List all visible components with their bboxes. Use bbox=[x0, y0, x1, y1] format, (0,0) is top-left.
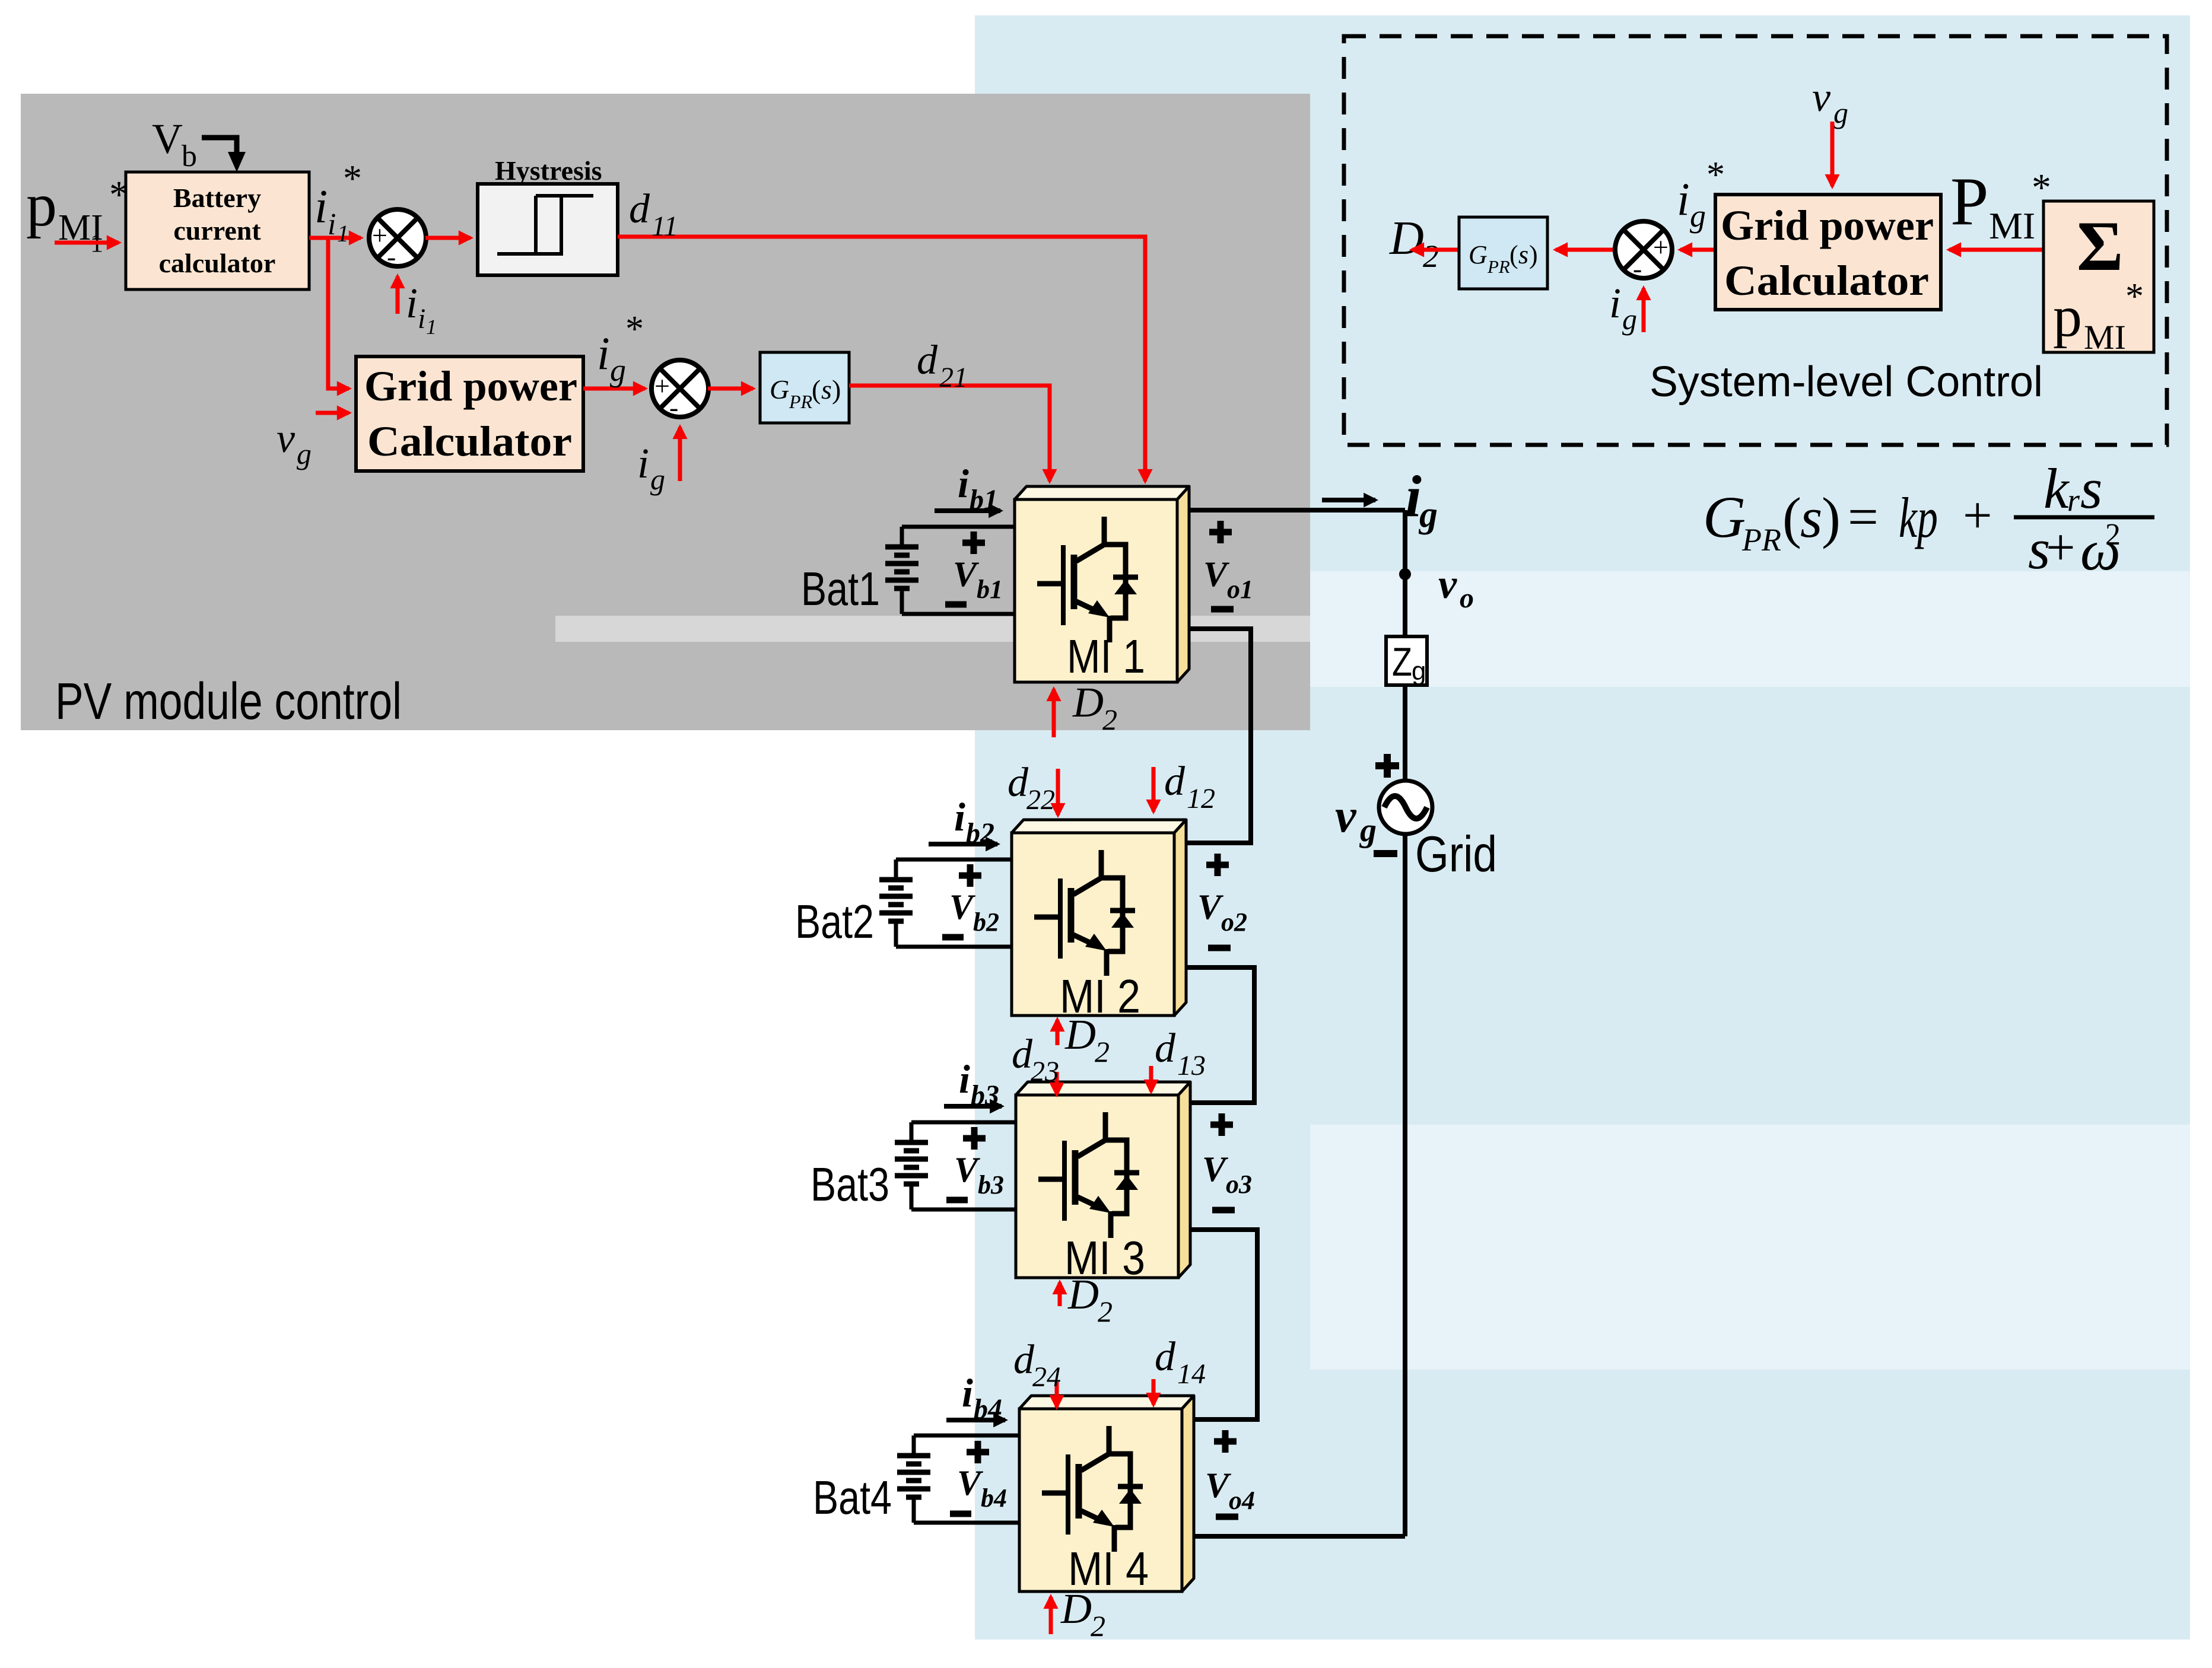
svg-text:i: i bbox=[962, 1370, 973, 1415]
svg-text:Calculator: Calculator bbox=[1724, 257, 1929, 304]
svg-text:-: - bbox=[1633, 253, 1642, 284]
svg-text:b1: b1 bbox=[970, 484, 998, 515]
svg-text:d: d bbox=[1008, 760, 1029, 806]
svg-text:kp: kp bbox=[1899, 486, 1938, 549]
svg-text:MI: MI bbox=[1989, 205, 2035, 247]
svg-text:(: ( bbox=[812, 374, 821, 405]
svg-text:Hystresis: Hystresis bbox=[495, 155, 602, 186]
svg-text:D: D bbox=[1067, 1271, 1099, 1318]
svg-text:v: v bbox=[1335, 790, 1357, 842]
svg-text:d: d bbox=[1013, 1337, 1035, 1383]
svg-text:-: - bbox=[387, 241, 396, 272]
svg-text:+: + bbox=[1963, 487, 1992, 545]
svg-text:r: r bbox=[2067, 482, 2080, 518]
svg-text:D: D bbox=[1064, 1011, 1096, 1058]
svg-text:PR: PR bbox=[789, 391, 813, 412]
svg-text:2: 2 bbox=[2105, 518, 2121, 552]
svg-text:g: g bbox=[1833, 96, 1848, 129]
svg-text:i: i bbox=[314, 181, 328, 233]
svg-text:2: 2 bbox=[1095, 1035, 1110, 1068]
svg-text:Battery: Battery bbox=[173, 183, 261, 213]
svg-text:calculator: calculator bbox=[159, 248, 276, 278]
svg-text:b1: b1 bbox=[977, 575, 1003, 604]
svg-text:23: 23 bbox=[1031, 1056, 1059, 1087]
svg-text:11: 11 bbox=[651, 211, 678, 242]
svg-text:Grid: Grid bbox=[1415, 826, 1497, 883]
svg-text:-: - bbox=[669, 392, 678, 422]
svg-text:24: 24 bbox=[1032, 1361, 1061, 1393]
svg-text:V: V bbox=[1202, 1150, 1229, 1189]
svg-text:V: V bbox=[954, 1150, 981, 1189]
svg-text:d: d bbox=[917, 338, 938, 383]
svg-text:D: D bbox=[1072, 679, 1104, 726]
svg-text:21: 21 bbox=[939, 362, 968, 393]
svg-text:b2: b2 bbox=[973, 908, 999, 937]
svg-text:D: D bbox=[1060, 1585, 1092, 1632]
svg-text:d: d bbox=[629, 186, 650, 232]
svg-text:g: g bbox=[1412, 657, 1426, 686]
svg-text:System-level Control: System-level Control bbox=[1650, 358, 2043, 406]
svg-text:v: v bbox=[1812, 75, 1831, 120]
svg-text:i: i bbox=[328, 208, 336, 241]
svg-text:*: * bbox=[2125, 276, 2144, 317]
svg-text:i: i bbox=[1609, 279, 1621, 327]
svg-text:(: ( bbox=[1509, 240, 1518, 269]
svg-text:G: G bbox=[1469, 240, 1488, 269]
svg-text:o1: o1 bbox=[1227, 575, 1253, 604]
svg-text:1: 1 bbox=[337, 220, 349, 247]
svg-text:g: g bbox=[1690, 198, 1706, 234]
svg-text:p: p bbox=[2053, 285, 2082, 349]
svg-text:b2: b2 bbox=[966, 817, 994, 849]
svg-text:i: i bbox=[597, 327, 610, 379]
svg-text:14: 14 bbox=[1177, 1358, 1206, 1390]
svg-text:2: 2 bbox=[1102, 703, 1117, 736]
svg-text:P: P bbox=[1950, 164, 1989, 240]
svg-text:Bat3: Bat3 bbox=[811, 1158, 889, 1211]
svg-text:V: V bbox=[953, 555, 980, 594]
svg-text:Bat2: Bat2 bbox=[795, 895, 874, 948]
svg-text:k: k bbox=[2043, 457, 2070, 520]
svg-text:b3: b3 bbox=[978, 1170, 1004, 1199]
svg-text:PR: PR bbox=[1741, 522, 1781, 558]
svg-text:o4: o4 bbox=[1229, 1486, 1255, 1515]
svg-text:V: V bbox=[1205, 1466, 1232, 1505]
svg-text:o: o bbox=[1460, 582, 1474, 614]
svg-text:V: V bbox=[1197, 887, 1224, 927]
svg-text:Z: Z bbox=[1392, 639, 1412, 685]
svg-text:g: g bbox=[650, 463, 665, 496]
svg-text:12: 12 bbox=[1187, 783, 1215, 814]
svg-text:g: g bbox=[1359, 812, 1377, 849]
svg-text:22: 22 bbox=[1026, 784, 1055, 816]
svg-text:Grid power: Grid power bbox=[1721, 202, 1934, 249]
svg-text:g: g bbox=[610, 352, 626, 388]
svg-text:*: * bbox=[1706, 155, 1725, 195]
svg-text:PV module control: PV module control bbox=[55, 673, 402, 730]
svg-text:o3: o3 bbox=[1226, 1170, 1252, 1199]
svg-text:i: i bbox=[418, 303, 425, 335]
svg-text:v: v bbox=[1438, 562, 1457, 607]
svg-text:V: V bbox=[1203, 555, 1230, 594]
svg-text:=: = bbox=[1848, 486, 1879, 547]
svg-text:g: g bbox=[1622, 303, 1637, 336]
svg-text:d: d bbox=[1155, 1334, 1176, 1380]
svg-text:): ) bbox=[1529, 240, 1538, 269]
svg-text:+: + bbox=[2046, 519, 2076, 577]
svg-text:s: s bbox=[821, 374, 832, 405]
svg-text:G: G bbox=[770, 374, 789, 405]
svg-text:Calculator: Calculator bbox=[367, 418, 572, 465]
svg-text:V: V bbox=[152, 115, 183, 163]
svg-text:V: V bbox=[949, 887, 976, 927]
svg-text:i: i bbox=[954, 794, 965, 839]
svg-text:s: s bbox=[1800, 486, 1822, 549]
svg-text:g: g bbox=[297, 437, 312, 470]
svg-text:13: 13 bbox=[1177, 1050, 1206, 1081]
svg-text:2: 2 bbox=[1423, 238, 1439, 274]
svg-text:i: i bbox=[1677, 173, 1690, 225]
svg-text:s: s bbox=[2080, 457, 2102, 520]
svg-text:2: 2 bbox=[1098, 1295, 1113, 1328]
svg-text:Bat1: Bat1 bbox=[801, 562, 880, 615]
svg-text:d: d bbox=[1155, 1026, 1176, 1071]
svg-text:1: 1 bbox=[426, 315, 437, 339]
svg-text:(: ( bbox=[1782, 486, 1801, 549]
svg-text:G: G bbox=[1703, 484, 1746, 550]
svg-text:MI: MI bbox=[2084, 318, 2126, 356]
svg-text:MI 1: MI 1 bbox=[1067, 630, 1145, 683]
svg-text:V: V bbox=[957, 1463, 984, 1503]
svg-text:D: D bbox=[1389, 212, 1424, 265]
svg-text:d: d bbox=[1012, 1032, 1033, 1077]
svg-text:): ) bbox=[832, 374, 841, 405]
svg-text:v: v bbox=[276, 416, 295, 461]
svg-text:o2: o2 bbox=[1221, 908, 1247, 937]
svg-text:b4: b4 bbox=[974, 1393, 1002, 1425]
svg-text:i: i bbox=[406, 279, 418, 327]
svg-text:b3: b3 bbox=[971, 1080, 999, 1111]
svg-text:i: i bbox=[958, 461, 969, 506]
svg-text:Bat4: Bat4 bbox=[813, 1471, 892, 1524]
svg-text:*: * bbox=[625, 309, 644, 349]
svg-text:2: 2 bbox=[1091, 1609, 1105, 1642]
svg-text:p: p bbox=[26, 171, 57, 239]
svg-text:d: d bbox=[1164, 759, 1186, 804]
svg-text:b4: b4 bbox=[981, 1484, 1007, 1513]
svg-text:s: s bbox=[1518, 240, 1528, 269]
svg-text:i: i bbox=[959, 1056, 970, 1102]
svg-text:): ) bbox=[1822, 486, 1841, 549]
svg-text:Σ: Σ bbox=[2077, 206, 2123, 285]
svg-text:+: + bbox=[654, 371, 670, 401]
svg-text:*: * bbox=[343, 157, 362, 199]
svg-text:+: + bbox=[1653, 232, 1668, 262]
svg-text:+: + bbox=[372, 220, 387, 250]
svg-text:i: i bbox=[637, 440, 649, 487]
svg-text:current: current bbox=[173, 215, 261, 246]
svg-text:Grid power: Grid power bbox=[364, 362, 577, 410]
svg-text:*: * bbox=[109, 173, 129, 217]
svg-text:g: g bbox=[1418, 495, 1438, 535]
svg-text:PR: PR bbox=[1487, 256, 1510, 277]
svg-text:b: b bbox=[182, 139, 197, 173]
